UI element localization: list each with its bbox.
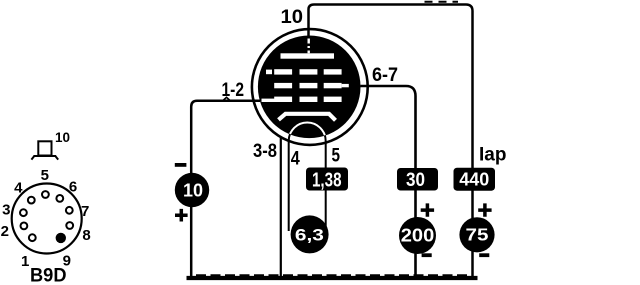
- svg-text:2: 2: [1, 223, 9, 240]
- B9D base: top cap square symbol: [31, 141, 58, 159]
- svg-text:1-2: 1-2: [222, 80, 245, 101]
- grid row 2 dashes: [274, 83, 341, 88]
- anode lead dash-dot over disc: [308, 39, 310, 54]
- meter circle 75 anode voltage: [459, 217, 494, 252]
- svg-text:1,38: 1,38: [312, 169, 342, 191]
- wire: control grid line from pin 1-2 to negative bias battery: [191, 101, 260, 277]
- svg-text:10: 10: [281, 7, 304, 28]
- heater dome white portion over disc: [289, 123, 326, 141]
- svg-text:B9D: B9D: [30, 265, 67, 285]
- tube V1 internal black disc: [258, 36, 361, 139]
- anode plate bar: [281, 53, 335, 58]
- svg-text:5: 5: [41, 167, 49, 184]
- svg-text:7: 7: [81, 203, 89, 220]
- plus sign above 75: [478, 203, 491, 216]
- base pin hole 4: [28, 197, 35, 204]
- svg-text:10: 10: [55, 130, 70, 145]
- svg-text:5: 5: [332, 146, 341, 167]
- svg-text:30: 30: [406, 170, 425, 191]
- grid row 1 dashes: [266, 69, 342, 74]
- B9D base outline circle: [12, 184, 82, 254]
- heater dome and legs (pins 4 and 5): [289, 123, 326, 231]
- svg-text:8: 8: [82, 227, 90, 244]
- base pin hole 8: [66, 222, 73, 229]
- svg-text:6,3: 6,3: [295, 227, 324, 245]
- base pin hole 5: [42, 191, 49, 198]
- plus sign above 200: [421, 203, 434, 216]
- base pin hole 2: [21, 223, 28, 230]
- tube V1 outer envelope circle: [252, 29, 368, 145]
- base pin 9 filled dot: [56, 233, 66, 243]
- plus sign below 10: [175, 209, 188, 222]
- wire: white 1-2 lead crossing disc: [262, 99, 276, 102]
- svg-text:6-7: 6-7: [372, 65, 398, 86]
- battery circle 10 (grid bias): [175, 173, 209, 207]
- base pin hole 6: [56, 195, 63, 202]
- base pin hole 1: [29, 234, 36, 241]
- svg-text:75: 75: [466, 225, 489, 245]
- wire: white 6-7 lead crossing disc: [342, 84, 349, 87]
- value box 1,38 heater current: [306, 168, 348, 191]
- bottom bus dashed overlay: [196, 274, 470, 276]
- wire: anode top lead from tube top cap to anode supply line: [309, 5, 473, 278]
- svg-text:440: 440: [459, 170, 489, 190]
- base pin hole 7: [66, 207, 73, 214]
- bottom bus wire: [187, 276, 478, 280]
- meter circle 6,3 heater voltage: [291, 215, 329, 253]
- wire: leader notch under 1-2 label: [223, 97, 230, 100]
- minus sign below 75: [479, 253, 489, 257]
- wire: screen grid line from pin 6-7 down to 30 box: [361, 86, 416, 277]
- svg-text:4: 4: [291, 149, 300, 170]
- wire: cathode line from pin 3-8 to bottom bus: [280, 137, 282, 278]
- svg-text:3: 3: [2, 202, 10, 219]
- cathode chevron: [279, 114, 336, 121]
- minus sign below 200: [422, 253, 432, 257]
- svg-text:3-8: 3-8: [253, 141, 277, 162]
- svg-text:4: 4: [14, 180, 23, 197]
- base pin hole 3: [20, 209, 27, 216]
- svg-text:10: 10: [183, 181, 203, 201]
- value box 440 anode: [454, 168, 496, 191]
- minus sign above 10: [175, 163, 187, 167]
- value box 30 screen: [397, 168, 438, 191]
- wire: dashed page-edge mark top right: [425, 1, 459, 3]
- svg-text:6: 6: [69, 179, 77, 196]
- svg-text:Iap: Iap: [479, 145, 506, 166]
- meter circle 200 screen voltage: [399, 217, 436, 254]
- grid row 3 dashes: [274, 97, 341, 102]
- svg-text:1: 1: [21, 253, 29, 270]
- svg-text:200: 200: [401, 225, 435, 245]
